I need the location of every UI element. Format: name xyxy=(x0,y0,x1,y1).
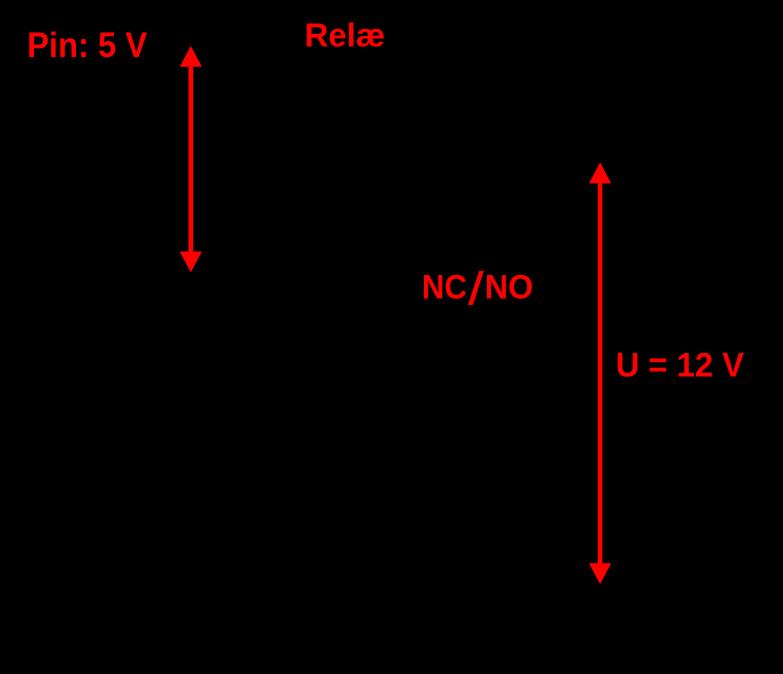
svg-text:NC: NC xyxy=(422,269,467,307)
wire: Q1 emitter to ground xyxy=(304,169,306,262)
battery B1 12V xyxy=(670,320,700,360)
label: NC/NO slash separator xyxy=(468,271,484,305)
voltage arrow: pin 5 V measure (double-headed) xyxy=(180,46,202,273)
relay contact COM xyxy=(466,136,474,144)
transistor Q1 xyxy=(273,128,317,172)
wire: Arduino pin to resistor R1 xyxy=(40,45,150,47)
ground (pin reference) xyxy=(176,262,206,274)
relay contact NC xyxy=(466,196,474,204)
svg-text:Relæ: Relæ xyxy=(305,17,386,54)
voltage arrow: U = 12 V measure (double-headed) xyxy=(589,162,611,584)
relay K1 body xyxy=(330,90,510,260)
relay contact NO xyxy=(470,144,494,234)
svg-text:U = 12 V: U = 12 V xyxy=(616,346,745,384)
wire: 0V return rail xyxy=(400,595,680,597)
svg-text:Pin: 5 V: Pin: 5 V xyxy=(27,26,148,65)
node 0V terminal xyxy=(597,593,603,599)
node +12V terminal xyxy=(597,147,603,153)
wire: NO contact to load xyxy=(494,230,680,584)
diode D1 (flyback) xyxy=(405,140,435,210)
wire: COM contact to +12V terminal xyxy=(474,140,600,163)
resistor R1 xyxy=(150,36,214,56)
relay K1 coil xyxy=(350,120,390,230)
wire: resistor R1 to transistor Q1 base xyxy=(214,46,280,150)
svg-text:NO: NO xyxy=(485,269,533,307)
ground (emitter) xyxy=(290,262,320,274)
